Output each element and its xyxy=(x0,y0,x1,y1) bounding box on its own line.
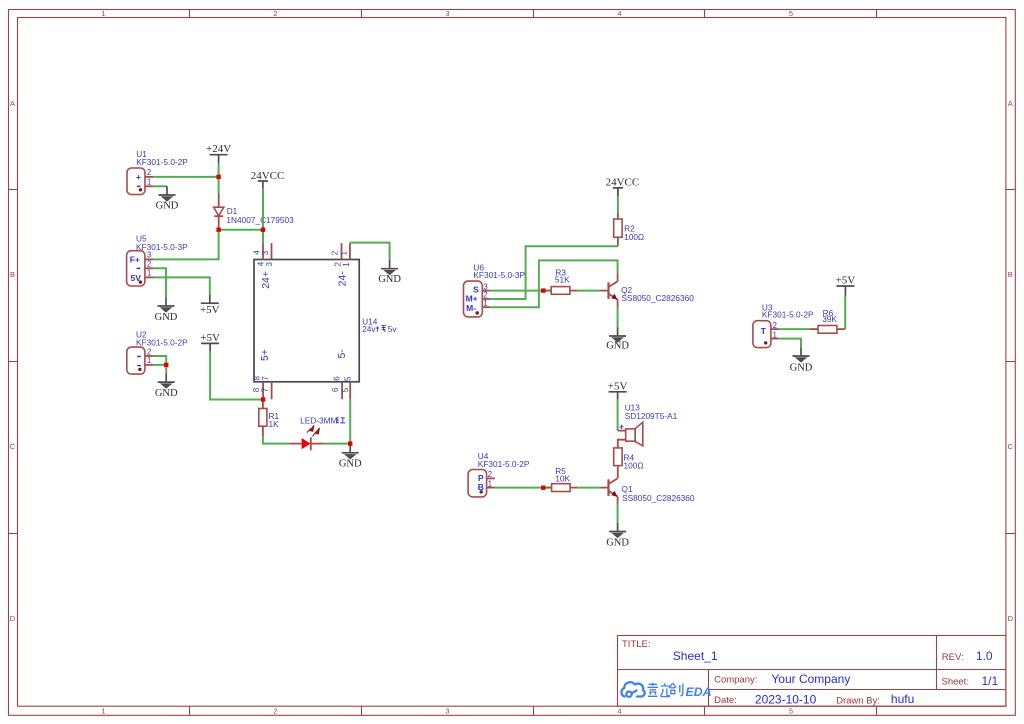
logo JLCEDA cloud icon xyxy=(621,682,644,697)
power flag +5V (below U5 pin1) xyxy=(200,295,220,316)
svg-text:hufu: hufu xyxy=(891,692,914,706)
R1 top pin xyxy=(262,400,264,409)
svg-text:39K: 39K xyxy=(822,314,837,324)
svg-text:7: 7 xyxy=(261,376,270,381)
R4 bottom pin to Q1 collector xyxy=(617,466,619,479)
svg-text:M-: M- xyxy=(466,303,476,313)
border column numbers bottom xyxy=(101,707,793,716)
svg-text:1: 1 xyxy=(101,9,105,18)
wire U5 pin1 to +5V flag xyxy=(153,277,210,295)
svg-text:100Ω: 100Ω xyxy=(624,232,644,242)
junction node LED/U14 pin5 xyxy=(348,441,352,445)
border column ticks bottom xyxy=(190,706,877,715)
R2 top pin xyxy=(617,213,619,219)
svg-text:KF301-5.0-2P: KF301-5.0-2P xyxy=(136,157,188,167)
svg-text:24-: 24- xyxy=(337,271,349,287)
wire U2 pin1 to junction xyxy=(153,364,166,366)
R6 right pin xyxy=(837,328,845,330)
resistor R4 body xyxy=(614,448,622,466)
power flag +5V (above R1 feed) xyxy=(200,332,220,352)
svg-text:1N4007_C179503: 1N4007_C179503 xyxy=(226,215,294,225)
wire +5V down to R6 xyxy=(844,296,846,329)
wire junction to U5 pin 3 xyxy=(153,230,219,260)
svg-text:3: 3 xyxy=(147,251,152,260)
resistor R5 body xyxy=(552,484,571,492)
svg-text:GND: GND xyxy=(339,458,362,469)
ground symbol GND (U2) xyxy=(155,373,178,399)
U14 pin 2 xyxy=(331,243,343,266)
wire U4 pin1 to R5 xyxy=(495,487,542,489)
svg-text:F+: F+ xyxy=(130,255,140,265)
wire junction down to diode D1 anode xyxy=(218,177,220,194)
svg-text:2: 2 xyxy=(488,470,493,479)
svg-text:+5V: +5V xyxy=(608,380,628,392)
svg-text:1/1: 1/1 xyxy=(982,674,999,688)
U6 pin 3 xyxy=(482,282,490,291)
svg-text:3: 3 xyxy=(445,9,449,18)
svg-text:GND: GND xyxy=(606,538,629,549)
wire Q1 emitter to ground xyxy=(617,505,619,523)
U4 pin 2 xyxy=(487,470,495,479)
svg-text:B: B xyxy=(1008,270,1013,279)
border row letters right xyxy=(1008,99,1014,623)
svg-text:LED-3MM: LED-3MM xyxy=(300,415,337,425)
U3 pin 2 xyxy=(771,321,779,330)
connector U4 KF301-5.0-2P body xyxy=(468,470,487,497)
svg-text:51K: 51K xyxy=(555,274,570,284)
svg-text:SS8050_C2826360: SS8050_C2826360 xyxy=(621,293,694,303)
svg-text:1K: 1K xyxy=(269,419,280,429)
svg-text:+: + xyxy=(619,422,624,432)
U6 pin 2 xyxy=(482,291,490,300)
junction node 24VCC/U14 pin4 xyxy=(261,228,265,232)
svg-text:5v: 5v xyxy=(388,324,398,334)
svg-text:Date:: Date: xyxy=(714,695,737,706)
U4 pin 1 xyxy=(487,480,495,489)
U14 pin 8 xyxy=(252,376,263,400)
svg-text:C: C xyxy=(10,442,16,451)
svg-text:B: B xyxy=(10,270,15,279)
U14 pin 6 xyxy=(331,376,342,400)
U14 pin 3 xyxy=(261,243,274,266)
wire D1 cathode to 24VCC column xyxy=(219,229,264,231)
svg-text:24v: 24v xyxy=(362,324,376,334)
ground symbol GND (Q1) xyxy=(606,523,629,549)
svg-text:D: D xyxy=(10,614,16,623)
wire U5 pin2 to ground xyxy=(153,268,166,297)
wire LED cathode to junction xyxy=(324,443,351,445)
svg-text:2: 2 xyxy=(147,347,152,356)
svg-text:T: T xyxy=(761,326,767,336)
svg-text:1: 1 xyxy=(773,330,778,339)
svg-text:2: 2 xyxy=(331,250,340,255)
svg-text:10K: 10K xyxy=(555,474,570,484)
wire U6 pin3 (S) to R3 xyxy=(490,290,543,292)
svg-text:KF301-5.0-2P: KF301-5.0-2P xyxy=(136,338,188,348)
svg-text:D: D xyxy=(1008,614,1014,623)
svg-text:SS8050_C2826360: SS8050_C2826360 xyxy=(622,493,695,503)
svg-text:+5V: +5V xyxy=(200,304,220,316)
ground symbol GND (U5) xyxy=(155,297,178,323)
wire U2 pin2 to pin1 column xyxy=(153,356,166,365)
junction node U2 pins xyxy=(164,363,168,367)
svg-text:1: 1 xyxy=(147,178,152,187)
ground symbol GND (LED) xyxy=(339,444,362,470)
svg-text:1.0: 1.0 xyxy=(976,649,993,663)
svg-text:A: A xyxy=(1008,99,1013,108)
svg-text:6: 6 xyxy=(331,387,340,392)
transistor Q2 SS8050 xyxy=(601,273,618,308)
wire R1 bottom to LED anode xyxy=(263,436,290,444)
svg-text:100Ω: 100Ω xyxy=(624,461,644,471)
wire junction down to ground xyxy=(165,365,167,374)
svg-text:2: 2 xyxy=(273,9,277,18)
svg-text:1: 1 xyxy=(339,251,348,256)
wire R3 to Q2 base xyxy=(577,290,600,292)
R6 left pin xyxy=(810,328,818,330)
wire U3 pin1 to ground xyxy=(779,339,801,348)
diode D1 1N4007 xyxy=(214,194,224,230)
LED light arrows xyxy=(307,425,320,436)
wire +24V stub down to junction xyxy=(218,163,220,177)
svg-text:Drawn By:: Drawn By: xyxy=(836,696,880,707)
U1 pin 2 xyxy=(145,168,153,177)
svg-text:1: 1 xyxy=(147,269,152,278)
svg-text:+: + xyxy=(136,172,141,182)
svg-text:KF301-5.0-2P: KF301-5.0-2P xyxy=(762,309,814,319)
U14 value label 24v转5v xyxy=(362,324,397,334)
svg-text:A: A xyxy=(10,99,15,108)
svg-text:1: 1 xyxy=(488,480,493,489)
svg-text:GND: GND xyxy=(156,200,179,211)
connector U3 KF301-5.0-2P body xyxy=(753,321,771,348)
wire +5V down and right to R1 top junction xyxy=(210,352,263,400)
power flag +24V xyxy=(206,143,231,163)
svg-text:2: 2 xyxy=(147,168,152,177)
logo text 嘉立创EDA xyxy=(648,683,683,697)
wire U14 pin5 down to junction xyxy=(349,399,351,443)
svg-text:Company:: Company: xyxy=(714,675,757,686)
net flag 24VCC (left) xyxy=(251,170,285,189)
wire U1 pin1 to ground xyxy=(153,185,167,187)
U5 pin 2 xyxy=(145,260,153,269)
U6 pin 1 xyxy=(482,299,490,308)
U2 pin 2 xyxy=(145,347,153,356)
wire U3 pin2 to R6 xyxy=(779,328,810,330)
svg-text:5: 5 xyxy=(341,387,350,392)
svg-text:KF301-5.0-3P: KF301-5.0-3P xyxy=(136,242,188,252)
power flag +5V (R6) xyxy=(836,275,856,296)
power flag +5V (U13) xyxy=(608,380,628,399)
svg-text:2: 2 xyxy=(773,321,778,330)
U3 pin 1 xyxy=(771,330,779,339)
wire U14 pin1 to ground xyxy=(350,243,390,260)
svg-text:5+: 5+ xyxy=(259,349,271,361)
svg-text:5: 5 xyxy=(789,707,793,716)
wire R2 bottom to U6 pin2 (M+) xyxy=(490,246,618,299)
U2 pin 1 xyxy=(145,356,153,365)
svg-text:1: 1 xyxy=(342,262,351,267)
svg-text:1: 1 xyxy=(147,356,152,365)
R5 left pin overlap segment xyxy=(545,487,551,489)
border column numbers top xyxy=(101,9,793,18)
resistor R2 body xyxy=(614,219,622,237)
net flag 24VCC (right) xyxy=(606,177,640,196)
svg-text:GND: GND xyxy=(155,388,178,399)
border row ticks right xyxy=(1006,190,1015,534)
module U14 24v-to-5v body xyxy=(254,260,359,382)
R2 bottom pin xyxy=(617,237,619,246)
svg-text:+24V: +24V xyxy=(206,143,231,155)
svg-text:REV:: REV: xyxy=(942,652,964,663)
svg-text:KF301-5.0-2P: KF301-5.0-2P xyxy=(478,459,530,469)
svg-text:1: 1 xyxy=(483,299,488,308)
ground symbol GND (U3) xyxy=(790,347,813,373)
junction node +24V/U1 xyxy=(216,175,220,179)
R1 bottom pin xyxy=(262,426,264,436)
svg-text:5: 5 xyxy=(789,9,793,18)
U5 pin 3 xyxy=(145,251,153,260)
svg-text:+5V: +5V xyxy=(836,275,856,287)
wire 24VCC to R2 top xyxy=(617,196,619,213)
speaker U13 SD1209T5-A1 xyxy=(618,422,643,448)
border column ticks top xyxy=(190,10,877,18)
svg-text:TITLE:: TITLE: xyxy=(622,639,651,650)
wire junction down to U14 pin 4 xyxy=(262,230,264,244)
svg-text:SD1209T5-A1: SD1209T5-A1 xyxy=(625,411,678,421)
svg-text:3: 3 xyxy=(265,262,274,267)
svg-text:+5V: +5V xyxy=(200,332,220,344)
svg-text:5-: 5- xyxy=(336,349,348,359)
border row letters left xyxy=(10,99,16,623)
svg-text:24VCC: 24VCC xyxy=(606,177,640,189)
svg-text:4: 4 xyxy=(617,707,621,716)
wire R5 to Q1 base xyxy=(577,487,600,489)
svg-text:Sheet_1: Sheet_1 xyxy=(673,649,718,663)
svg-text:3: 3 xyxy=(261,250,270,255)
svg-text:24+: 24+ xyxy=(260,271,272,289)
svg-text:Your Company: Your Company xyxy=(771,672,850,686)
U14 pin 5 xyxy=(341,376,352,399)
U1 pin 1 xyxy=(145,178,153,187)
junction node R1 top / U14 pin8 xyxy=(261,397,265,401)
connector U1 KF301-5.0-2P body xyxy=(127,168,145,195)
resistor R1 body xyxy=(259,409,267,427)
svg-text:5: 5 xyxy=(343,376,352,381)
wire U6 pin1 (M-) to Q2 collector xyxy=(490,260,617,307)
svg-text:Sheet:: Sheet: xyxy=(942,677,969,688)
ground symbol GND (U1) xyxy=(156,186,179,211)
junction node P wire / R5 pin xyxy=(541,486,545,490)
wire 24VCC down to junction xyxy=(262,189,264,230)
junction node S wire / R3 pin xyxy=(541,288,545,292)
svg-text:GND: GND xyxy=(790,362,813,373)
LED value label LED-3MM红 xyxy=(300,415,345,425)
R3 right pin xyxy=(570,290,577,292)
svg-text:GND: GND xyxy=(378,274,401,285)
svg-text:2023-10-10: 2023-10-10 xyxy=(755,693,817,707)
resistor R3 body xyxy=(551,287,570,295)
svg-text:KF301-5.0-3P: KF301-5.0-3P xyxy=(473,270,525,280)
junction node D1 cathode xyxy=(216,228,220,232)
svg-text:2: 2 xyxy=(147,260,152,269)
U14 pin 1 xyxy=(339,243,351,267)
border row ticks left xyxy=(9,190,18,534)
LED LED-3MM body xyxy=(290,437,324,450)
transistor Q1 SS8050 xyxy=(601,478,618,504)
svg-text:4: 4 xyxy=(617,9,621,18)
wire U1 pin2 to +24V node xyxy=(153,176,219,178)
R3 left pin overlap segment xyxy=(545,290,551,292)
U5 pin 1 xyxy=(145,269,153,278)
wire +5V down to speaker plus pin xyxy=(617,400,619,431)
ground symbol GND (U14) xyxy=(378,260,401,285)
svg-text:7: 7 xyxy=(260,387,269,392)
svg-text:GND: GND xyxy=(606,341,629,352)
connector U5 KF301-5.0-3P body xyxy=(127,251,145,286)
R5 right pin xyxy=(570,487,577,489)
svg-text:GND: GND xyxy=(155,312,178,323)
svg-text:2: 2 xyxy=(273,707,277,716)
svg-text:6: 6 xyxy=(332,376,341,381)
svg-text:EDA: EDA xyxy=(686,685,712,699)
svg-text:C: C xyxy=(1008,442,1014,451)
connector U2 KF301-5.0-2P body xyxy=(127,347,145,374)
svg-text:3: 3 xyxy=(445,707,449,716)
wire Q2 emitter to ground xyxy=(617,308,619,328)
title block frame xyxy=(618,636,1006,707)
U14 pin 7 xyxy=(260,376,271,400)
connector U6 KF301-5.0-3P body xyxy=(464,281,483,317)
svg-text:1: 1 xyxy=(101,707,105,716)
resistor R6 body xyxy=(818,326,837,334)
ground symbol GND (Q2) xyxy=(606,327,629,351)
U14 pin 4 xyxy=(252,243,265,266)
